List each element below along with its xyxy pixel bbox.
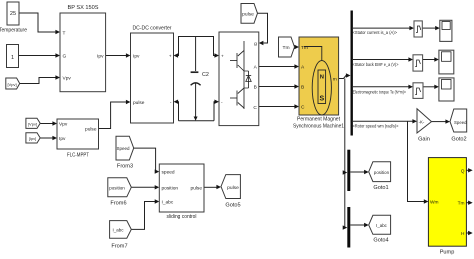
svg-text:Permanent Magnet: Permanent Magnet: [297, 117, 340, 123]
svg-text:<Stator current is_a (A)>: <Stator current is_a (A)>: [353, 30, 398, 36]
svg-text:Pump: Pump: [440, 250, 455, 256]
svg-text:Speed: Speed: [454, 120, 467, 126]
svg-text:Tm: Tm: [282, 45, 289, 51]
svg-text:From7: From7: [111, 244, 127, 250]
svg-text:position: position: [162, 185, 179, 191]
svg-text:G: G: [63, 54, 67, 60]
svg-text:<Rotor speed wm (rad/s)>: <Rotor speed wm (rad/s)>: [353, 124, 399, 130]
svg-text:[Vpv]: [Vpv]: [7, 82, 16, 87]
svg-text:Goto4: Goto4: [373, 238, 388, 244]
svg-text:N: N: [320, 75, 324, 81]
svg-text:position: position: [109, 185, 125, 190]
svg-text:C2: C2: [202, 72, 209, 78]
svg-text:m: m: [333, 78, 337, 83]
svg-text:I_abc: I_abc: [162, 200, 174, 206]
svg-text:Wm: Wm: [430, 200, 439, 206]
svg-text:I_abc: I_abc: [112, 228, 124, 233]
svg-text:pulse: pulse: [227, 185, 239, 191]
svg-text:25: 25: [10, 11, 16, 17]
svg-text:Gain: Gain: [418, 136, 430, 142]
svg-text:1: 1: [11, 55, 14, 61]
svg-text:From3: From3: [117, 164, 133, 170]
svg-text:pulse: pulse: [242, 12, 254, 18]
svg-text:Ipv: Ipv: [59, 136, 66, 142]
svg-text:Tm: Tm: [458, 201, 465, 207]
svg-text:+: +: [169, 55, 172, 60]
svg-text:sliding control: sliding control: [167, 214, 197, 220]
svg-text:C: C: [253, 105, 257, 111]
svg-text:C: C: [301, 105, 305, 111]
svg-text:<Electromagnetic torque Te (N*: <Electromagnetic torque Te (N*m)>: [351, 90, 407, 96]
svg-text:S: S: [319, 96, 324, 103]
svg-text:pulse: pulse: [85, 127, 97, 133]
svg-text:[Vpv]: [Vpv]: [28, 121, 37, 126]
svg-text:speed: speed: [162, 170, 175, 176]
svg-text:Vpv: Vpv: [59, 122, 68, 128]
svg-text:Tm: Tm: [301, 45, 308, 51]
svg-text:Vpv: Vpv: [63, 76, 72, 82]
svg-text:-K-: -K-: [419, 120, 425, 125]
svg-text:DC-DC converter: DC-DC converter: [133, 26, 172, 32]
svg-text:B: B: [301, 85, 304, 91]
svg-text:Ipv: Ipv: [97, 54, 104, 60]
svg-text:<Stator back EMF e_a (V)>: <Stator back EMF e_a (V)>: [353, 62, 399, 68]
svg-text:Goto5: Goto5: [225, 203, 240, 209]
svg-text:Ipv: Ipv: [133, 54, 140, 60]
svg-text:Synchronous Machine1: Synchronous Machine1: [293, 124, 344, 130]
svg-text:I_abc: I_abc: [376, 223, 388, 228]
svg-text:Goto2: Goto2: [451, 136, 466, 142]
svg-text:pulse: pulse: [191, 185, 203, 191]
svg-text:position: position: [374, 170, 390, 175]
svg-text:Temperature: Temperature: [0, 28, 27, 34]
svg-text:g: g: [254, 42, 257, 47]
svg-text:T: T: [63, 30, 66, 36]
svg-text:Q: Q: [461, 168, 465, 174]
svg-text:B: B: [254, 85, 257, 91]
svg-text:H: H: [461, 231, 465, 237]
svg-text:pulse: pulse: [133, 100, 145, 106]
svg-text:From6: From6: [110, 201, 126, 207]
svg-text:Speed: Speed: [117, 146, 130, 152]
svg-text:Goto1: Goto1: [373, 185, 388, 191]
svg-text:FLC-MPPT: FLC-MPPT: [67, 153, 89, 159]
svg-text:+: +: [221, 55, 224, 60]
svg-text:BP SX 150S: BP SX 150S: [68, 5, 99, 11]
svg-text:[Ipv]: [Ipv]: [29, 136, 37, 141]
